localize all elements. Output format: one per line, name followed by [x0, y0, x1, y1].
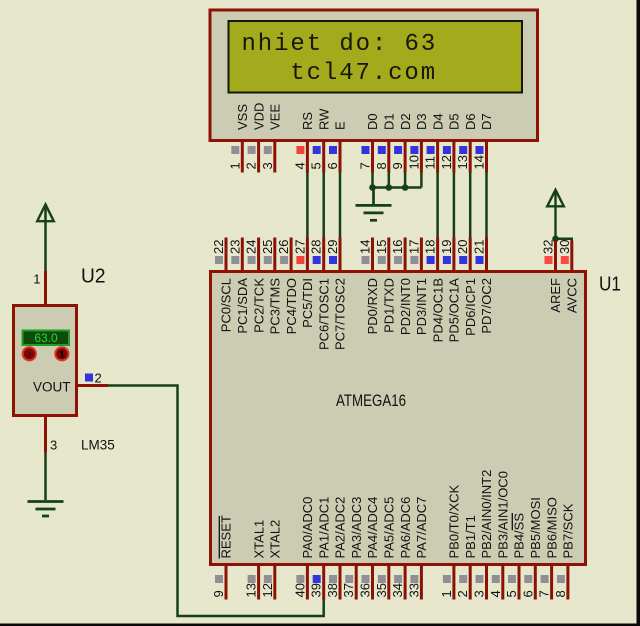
svg-text:PD2/INT0: PD2/INT0 [398, 278, 413, 335]
U1 pin 9 RESET [225, 566, 228, 600]
wire AVCC jog [556, 239, 572, 241]
svg-text:3: 3 [50, 438, 57, 453]
svg-text:2: 2 [455, 590, 470, 597]
svg-text:PC4/TDO: PC4/TDO [284, 278, 299, 334]
svg-text:PC3/TMS: PC3/TMS [268, 278, 283, 335]
U1 pin 17 [420, 238, 423, 273]
svg-text:PD5/OC1A: PD5/OC1A [447, 278, 462, 343]
svg-text:33: 33 [406, 583, 421, 597]
svg-text:PA7/ADC7: PA7/ADC7 [414, 497, 429, 559]
U1 pin 34 PA6/ADC6 [404, 566, 407, 600]
svg-text:VEE: VEE [268, 104, 283, 130]
svg-text:38: 38 [325, 583, 340, 597]
wire D3 drop [420, 172, 423, 188]
window border bottom [0, 624, 640, 626]
junction node AREF [552, 236, 559, 243]
U1 pin 7 PB6/MISO [550, 566, 553, 600]
LM35 knob down [23, 347, 36, 360]
svg-text:PA4/ADC4: PA4/ADC4 [365, 497, 380, 559]
wire D2 drop [404, 172, 407, 188]
svg-text:PD3/INT1: PD3/INT1 [414, 278, 429, 335]
svg-text:PD7/OC2: PD7/OC2 [479, 278, 494, 334]
svg-text:17: 17 [406, 240, 421, 254]
U1 pin 8 PB7/SCK [566, 566, 569, 600]
junction node D2 [402, 184, 409, 191]
U1 pin 26 [290, 238, 293, 273]
svg-text:39: 39 [309, 583, 324, 597]
U1 pin 5 PB4/SS [518, 566, 521, 600]
svg-text:13: 13 [244, 583, 259, 597]
power symbol (VCC arrow) U2 [37, 205, 54, 222]
svg-text:12: 12 [439, 155, 454, 169]
svg-text:22: 22 [211, 240, 226, 254]
svg-text:nhiet do: 63: nhiet do: 63 [242, 31, 438, 58]
U1 pin 37 PA3/ADC3 [355, 566, 358, 600]
svg-text:27: 27 [292, 240, 307, 254]
svg-text:PB3/AIN1/OC0: PB3/AIN1/OC0 [496, 471, 511, 558]
svg-text:PC5/TDI: PC5/TDI [300, 278, 315, 328]
svg-text:9: 9 [390, 162, 405, 169]
svg-text:PA6/ADC6: PA6/ADC6 [398, 497, 413, 559]
U1 pin 39 PA1/ADC1 [322, 566, 325, 600]
power symbol (VCC arrow) for AREF/AVCC [547, 190, 564, 241]
svg-text:8: 8 [374, 162, 389, 169]
svg-text:37: 37 [341, 583, 356, 597]
svg-text:PB0/T0/XCK: PB0/T0/XCK [447, 484, 462, 558]
junction node D1 [386, 184, 393, 191]
svg-text:7: 7 [358, 162, 373, 169]
svg-text:VOUT: VOUT [33, 380, 71, 395]
U1 pin 13 XTAL1 [257, 566, 260, 600]
wire U2 VOUT to U1 pin39 PA1 [108, 386, 324, 617]
LCD pin 5 RW [322, 142, 325, 173]
svg-text:1: 1 [439, 590, 454, 597]
svg-text:1: 1 [59, 350, 65, 361]
window border right [637, 0, 640, 626]
svg-text:RW: RW [316, 108, 331, 130]
LCD pin 4 RS [306, 142, 309, 173]
svg-text:PB6/MISO: PB6/MISO [544, 497, 559, 558]
LCD pin 14 D7 [485, 142, 488, 173]
svg-text:34: 34 [390, 583, 405, 597]
LCD pin 3 VEE [273, 142, 276, 173]
U1 pin 27 [306, 238, 309, 273]
wire D5 LCD12 to U1 pin19 [453, 172, 456, 238]
svg-text:12: 12 [260, 583, 275, 597]
svg-text:PB4/SS: PB4/SS [512, 513, 527, 559]
LCD pin 10 D3 [420, 142, 423, 173]
U1 pin 19 [452, 238, 455, 273]
LCD pin 13 D6 [469, 142, 472, 173]
svg-text:30: 30 [557, 240, 572, 254]
svg-text:D6: D6 [463, 113, 478, 130]
svg-text:4: 4 [488, 590, 503, 597]
U1 pin 35 PA5/ADC5 [387, 566, 390, 600]
U1 pin 1 PB0/T0/XCK [452, 566, 455, 600]
LCD screen [229, 21, 523, 93]
svg-text:2: 2 [244, 162, 259, 169]
svg-text:PD4/OC1B: PD4/OC1B [430, 278, 445, 342]
svg-text:6: 6 [325, 162, 340, 169]
svg-text:PB2/AIN0/INT2: PB2/AIN0/INT2 [479, 470, 494, 559]
U2 pin 1 [44, 271, 47, 306]
svg-text:PA0/ADC0: PA0/ADC0 [300, 497, 315, 559]
LM35 knob up [55, 347, 68, 360]
svg-text:PD1/TXD: PD1/TXD [382, 278, 397, 333]
ground U2 [28, 502, 64, 517]
svg-text:9: 9 [211, 590, 226, 597]
U1 pin 38 PA2/ADC2 [339, 566, 342, 600]
U1 pin 6 PB5/MOSI [534, 566, 537, 600]
svg-text:28: 28 [309, 240, 324, 254]
svg-text:ATMEGA16: ATMEGA16 [336, 391, 406, 410]
svg-text:↓: ↓ [27, 350, 32, 361]
svg-text:19: 19 [439, 240, 454, 254]
svg-text:PC0/SCL: PC0/SCL [219, 278, 234, 332]
sensor U2 LM35 body [14, 306, 77, 416]
svg-text:VDD: VDD [251, 103, 266, 130]
svg-text:14: 14 [358, 240, 373, 254]
svg-text:D7: D7 [479, 113, 494, 130]
U1 pin 30 AVCC [570, 241, 573, 273]
chip U1 ATMEGA16 body [211, 272, 586, 565]
wire D1 drop [388, 172, 391, 188]
svg-text:PB1/T1: PB1/T1 [463, 515, 478, 558]
svg-text:PA5/ADC5: PA5/ADC5 [382, 497, 397, 559]
svg-text:40: 40 [292, 583, 307, 597]
svg-text:PB5/MOSI: PB5/MOSI [528, 497, 543, 558]
wire D6 LCD13 to U1 pin20 [469, 172, 472, 238]
svg-text:E: E [333, 121, 348, 130]
svg-text:XTAL1: XTAL1 [251, 520, 266, 559]
U1 pin 33 PA7/ADC7 [420, 566, 423, 600]
LCD pin 8 D1 [387, 142, 390, 173]
svg-text:18: 18 [423, 240, 438, 254]
svg-text:21: 21 [472, 240, 487, 254]
U1 pin 24 [257, 238, 260, 273]
svg-text:PA3/ADC3: PA3/ADC3 [349, 497, 364, 559]
svg-text:8: 8 [553, 590, 568, 597]
svg-text:10: 10 [406, 155, 421, 169]
U1 pin 21 [485, 238, 488, 273]
svg-text:D1: D1 [382, 113, 397, 130]
U1 pin 40 PA0/ADC0 [306, 566, 309, 600]
LCD pin 6 E [339, 142, 342, 173]
svg-text:26: 26 [276, 240, 291, 254]
junction node D0 [369, 184, 376, 191]
U1 pin 25 [273, 238, 276, 273]
U1 pin 36 PA4/ADC4 [371, 566, 374, 600]
wire D0-D3 bus to ground [373, 186, 422, 189]
U1 pin 23 [241, 238, 244, 273]
wire U2 pin1 to power [44, 206, 47, 272]
svg-text:5: 5 [504, 590, 519, 597]
U1 pin 32 AREF [554, 241, 557, 273]
U1 pin 4 PB3/AIN1/OC0 [501, 566, 504, 600]
wire E LCD6 to U1 pin29 [339, 172, 342, 238]
svg-text:13: 13 [455, 155, 470, 169]
svg-text:1: 1 [33, 272, 40, 287]
U1 pin 22 [225, 238, 228, 273]
svg-text:PD0/RXD: PD0/RXD [365, 278, 380, 334]
svg-text:4: 4 [292, 162, 307, 169]
svg-text:U2: U2 [81, 265, 106, 288]
U1 pin 28 [322, 238, 325, 273]
U1 pin 15 [387, 238, 390, 273]
LCD pin 11 D4 [436, 142, 439, 173]
svg-text:36: 36 [358, 583, 373, 597]
U1 pin 20 [469, 238, 472, 273]
svg-text:15: 15 [374, 240, 389, 254]
RESET overline [218, 516, 220, 559]
svg-text:20: 20 [455, 240, 470, 254]
LCD LM016L body [210, 10, 538, 141]
svg-text:23: 23 [227, 240, 242, 254]
U1 pin 12 XTAL2 [273, 566, 276, 600]
ground (LCD data) [356, 188, 392, 221]
LCD pin 2 VDD [257, 142, 260, 173]
U1 pin 16 [404, 238, 407, 273]
svg-text:29: 29 [325, 240, 340, 254]
svg-text:3: 3 [472, 590, 487, 597]
svg-text:1: 1 [227, 162, 242, 169]
svg-text:D5: D5 [447, 113, 462, 130]
LCD pin 7 D0 [371, 142, 374, 173]
U1 pin 18 [436, 238, 439, 273]
svg-text:5: 5 [309, 162, 324, 169]
wire D0 drop [371, 172, 374, 188]
svg-text:35: 35 [374, 583, 389, 597]
svg-text:3: 3 [260, 162, 275, 169]
svg-text:63.0: 63.0 [34, 331, 58, 345]
svg-text:D4: D4 [430, 113, 445, 130]
svg-text:LM35: LM35 [81, 438, 115, 453]
svg-text:PA2/ADC2: PA2/ADC2 [333, 497, 348, 559]
svg-text:32: 32 [541, 240, 556, 254]
svg-text:RS: RS [300, 112, 315, 130]
svg-text:PC6/TOSC1: PC6/TOSC1 [316, 278, 331, 350]
svg-text:D0: D0 [365, 113, 380, 130]
svg-text:16: 16 [390, 240, 405, 254]
LCD pin 1 VSS [241, 142, 244, 173]
LCD pin 9 D2 [404, 142, 407, 173]
svg-text:AREF: AREF [548, 278, 563, 313]
svg-text:PC2/TCK: PC2/TCK [251, 278, 266, 333]
svg-text:24: 24 [244, 240, 259, 254]
svg-text:7: 7 [537, 590, 552, 597]
svg-text:tcl47.com: tcl47.com [290, 60, 437, 87]
svg-text:D3: D3 [414, 113, 429, 130]
wire RW LCD5 to U1 pin28 [322, 172, 325, 238]
U1 pin 14 [371, 238, 374, 273]
svg-text:D2: D2 [398, 113, 413, 130]
svg-text:PD6/ICP1: PD6/ICP1 [463, 278, 478, 336]
svg-text:AVCC: AVCC [565, 278, 580, 313]
U1 pin 3 PB2/AIN0/INT2 [485, 566, 488, 600]
svg-text:XTAL2: XTAL2 [268, 520, 283, 559]
wire D7 LCD14 to U1 pin21 [485, 172, 488, 238]
svg-text:PC1/SDA: PC1/SDA [235, 278, 250, 334]
svg-text:PC7/TOSC2: PC7/TOSC2 [333, 278, 348, 350]
U2 pin 2 VOUT [77, 384, 109, 387]
U1 pin 29 [339, 238, 342, 273]
svg-text:VSS: VSS [235, 104, 250, 130]
SS overline [511, 513, 513, 530]
svg-text:PA1/ADC1: PA1/ADC1 [316, 497, 331, 559]
svg-text:11: 11 [423, 156, 438, 170]
wire RS LCD4 to U1 pin27 [306, 172, 309, 238]
svg-text:PB7/SCK: PB7/SCK [561, 503, 576, 558]
wire D4 LCD11 to U1 pin18 [436, 172, 439, 238]
U1 pin 2 PB1/T1 [469, 566, 472, 600]
LM35 display [23, 331, 70, 346]
wire U2 pin3 to ground [44, 453, 47, 501]
U2 pin 3 [44, 416, 47, 453]
svg-text:6: 6 [520, 590, 535, 597]
svg-text:2: 2 [95, 371, 102, 386]
svg-text:14: 14 [472, 155, 487, 169]
svg-text:U1: U1 [599, 273, 621, 296]
svg-text:RESET: RESET [219, 515, 234, 558]
LCD pin 12 D5 [452, 142, 455, 173]
svg-text:25: 25 [260, 240, 275, 254]
